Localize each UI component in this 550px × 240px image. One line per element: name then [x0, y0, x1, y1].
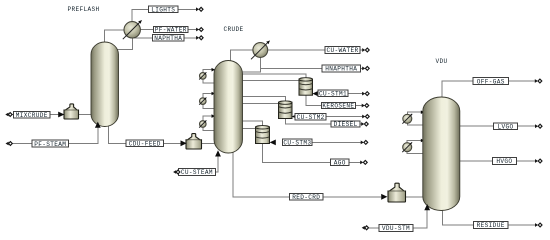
wire DIESEL line	[285, 118, 362, 124]
label VDU-STM	[379, 225, 413, 233]
arrow CU-STEAM into CRUDE	[215, 150, 221, 156]
condenser sphere CRUDE	[253, 43, 268, 58]
wire CU-STEAM line	[215, 152, 218, 172]
wire PF-WATER line	[140, 29, 197, 31]
node AGO out	[360, 160, 367, 164]
svg-text:DIESEL: DIESEL	[334, 121, 358, 128]
wire KEROSENE line	[306, 95, 363, 106]
svg-text:HVGO: HVGO	[496, 158, 512, 165]
label OFF-GAS	[473, 78, 509, 86]
wire PREFLASH reflux return	[118, 49, 134, 51]
label NAPHTHA	[152, 35, 184, 42]
label HNAPHTHA	[322, 65, 361, 73]
wire HNAPHTHA line	[261, 67, 364, 69]
wire B1 outlet to PREFLASH column	[78, 114, 95, 116]
node MIXCRUDE src	[5, 113, 12, 117]
node CU-STM3 src	[361, 140, 368, 144]
column VDU tower	[423, 97, 460, 211]
condenser sphere PREFLASH	[124, 22, 140, 38]
svg-text:PF-STEAM: PF-STEAM	[34, 141, 66, 148]
node CU-STM1 src	[362, 92, 369, 96]
svg-text:OFF-GAS: OFF-GAS	[477, 78, 505, 85]
wire stripper S3 liquid draw	[242, 127, 257, 129]
label CU-STM1	[318, 90, 348, 98]
label RESIDUE	[473, 222, 508, 230]
node PF-STEAM src	[6, 142, 13, 146]
node HNAPHTHA out	[362, 66, 369, 70]
label CDU-FEED	[126, 140, 163, 147]
svg-text:PREFLASH: PREFLASH	[67, 6, 99, 13]
label MIXCRUDE	[14, 111, 51, 119]
arrow MIXCRUDE into B1	[58, 112, 64, 118]
wire CDU-FEED line	[108, 123, 181, 143]
node VDU-STM src	[362, 226, 369, 230]
label AGO	[331, 159, 350, 166]
node RESIDUE out	[535, 223, 542, 227]
wire VDU-STM line	[368, 206, 427, 228]
wire MIXCRUDE line	[11, 114, 59, 116]
label LIGHTS	[149, 6, 179, 13]
pumparound P3 CRUDE	[203, 116, 215, 121]
arrow CU-STM2 into stripper S2	[292, 114, 298, 120]
label CU-STM3	[283, 139, 312, 146]
heater B2 (crude furnace)	[186, 134, 202, 149]
node LVGO out	[535, 124, 542, 128]
svg-text:MIXCRUDE: MIXCRUDE	[16, 112, 48, 119]
label KEROSENE	[321, 102, 355, 109]
svg-text:PF-WATER: PF-WATER	[155, 27, 187, 34]
node CU-STM2 src	[362, 115, 369, 119]
label LVGO	[494, 123, 518, 131]
svg-text:CU-WATER: CU-WATER	[326, 47, 358, 54]
wire CRUDE overhead riser	[231, 50, 254, 62]
arrow CU-STM3 into stripper S3	[270, 140, 276, 146]
node CU-WATER out	[362, 48, 369, 52]
wire CRUDE condenser downcomer	[260, 57, 262, 72]
label PF-WATER	[154, 26, 189, 33]
heater B3 (vacuum furnace)	[388, 183, 406, 202]
svg-text:RESIDUE: RESIDUE	[477, 222, 505, 229]
svg-text:CRUDE: CRUDE	[223, 26, 243, 33]
wire RESIDUE line	[443, 210, 537, 225]
wire RED-CRD line	[233, 150, 381, 197]
side stripper S1 (kerosene)	[299, 79, 313, 95]
wire stripper S2 liquid draw	[242, 103, 280, 105]
label DIESEL	[331, 121, 360, 128]
label RED-CRD	[290, 194, 324, 201]
svg-text:NAPHTHA: NAPHTHA	[154, 35, 182, 42]
node LIGHTS out	[196, 7, 203, 11]
node DIESEL out	[361, 122, 368, 126]
wire HVGO line	[457, 160, 537, 162]
node CU-STEAM src	[173, 170, 180, 174]
wire stripper S3 vapor return	[242, 121, 263, 126]
heater B1 (preflash furnace)	[64, 104, 79, 119]
wire PF-STEAM line	[11, 123, 98, 144]
wire B2 outlet to CRUDE column	[201, 142, 219, 144]
svg-text:CDU-FEED: CDU-FEED	[129, 141, 161, 148]
svg-text:VDU: VDU	[435, 58, 447, 65]
svg-text:CU-STM1: CU-STM1	[319, 90, 347, 97]
svg-text:VDU-STM: VDU-STM	[382, 225, 410, 232]
node OFF-GAS out	[535, 79, 542, 83]
svg-text:LVGO: LVGO	[497, 123, 513, 130]
wire CU-STM3 line	[312, 141, 362, 143]
wire CU-STM1 line	[348, 93, 363, 95]
node KEROSENE out	[362, 104, 369, 108]
svg-text:KEROSENE: KEROSENE	[322, 103, 354, 110]
arrow PF-STEAM into PREFLASH	[95, 122, 101, 128]
wire B3 outlet to VDU column	[405, 196, 426, 198]
svg-text:LIGHTS: LIGHTS	[151, 6, 175, 13]
wire PREFLASH overhead riser	[105, 30, 125, 44]
pumparound P2 CRUDE	[203, 94, 215, 98]
svg-text:AGO: AGO	[334, 160, 346, 167]
column PREFLASH tower	[91, 42, 119, 127]
label CU-STEAM	[179, 169, 216, 177]
label CU-WATER	[325, 47, 360, 55]
wire condenser downcomer / NAPHTHA line	[132, 37, 134, 50]
arrow CU-STM1 into stripper S1	[312, 91, 318, 97]
wire AGO line	[263, 143, 362, 162]
wire LVGO line	[457, 125, 537, 127]
wire CU-WATER line	[267, 49, 363, 51]
pumparound P1 CRUDE	[203, 70, 215, 73]
node NAPHTHA out	[196, 36, 203, 40]
arrow VDU-STM into VDU	[424, 204, 430, 210]
side stripper S3 (AGO)	[256, 127, 270, 144]
arrow CDU-FEED into B2	[181, 140, 187, 146]
arrow RED-CRD into B3	[381, 194, 387, 200]
pumparound P4 VDU	[407, 112, 424, 114]
label PF-STEAM	[32, 140, 69, 148]
wire VDU overhead riser / OFF-GAS	[442, 81, 536, 99]
wire stripper S1 vapor return	[242, 74, 306, 79]
wire CRUDE reflux return	[242, 71, 262, 73]
wire LIGHTS line	[132, 9, 197, 23]
side stripper S2 (diesel)	[279, 102, 293, 118]
svg-text:RED-CRD: RED-CRD	[292, 194, 320, 201]
svg-text:CU-STM3: CU-STM3	[283, 140, 311, 147]
wire stripper S2 vapor return	[242, 97, 286, 102]
node PF-WATER out	[196, 28, 203, 32]
wire CU-STM2 line	[326, 116, 363, 118]
label HVGO	[492, 158, 516, 166]
node HVGO out	[535, 159, 542, 163]
svg-text:HNAPHTHA: HNAPHTHA	[325, 66, 357, 73]
svg-text:CU-STEAM: CU-STEAM	[181, 169, 213, 176]
svg-text:CU-STM2: CU-STM2	[297, 114, 325, 121]
column CRUDE tower (CDU)	[214, 61, 243, 154]
wire stripper S1 liquid draw	[242, 80, 301, 82]
pumparound P5 VDU	[407, 141, 424, 143]
label CU-STM2	[295, 113, 326, 121]
